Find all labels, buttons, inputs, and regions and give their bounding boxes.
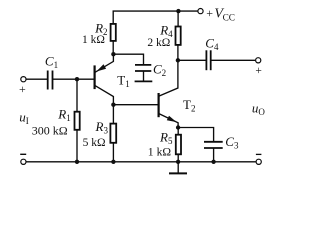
resistor R2 xyxy=(111,24,116,41)
wire C4 to output xyxy=(211,59,256,61)
ground xyxy=(177,162,179,173)
wire node to C2 xyxy=(113,54,143,64)
wire R2 bottom to node xyxy=(112,41,114,54)
svg-text:300 kΩ: 300 kΩ xyxy=(32,124,68,138)
svg-text:1 kΩ: 1 kΩ xyxy=(82,34,105,46)
node R5 bottom xyxy=(176,160,180,164)
wire input to T1 base xyxy=(26,78,47,80)
node T2 collector / R4 / C4 xyxy=(176,58,180,62)
svg-text:CC: CC xyxy=(223,13,235,23)
wire emitter to C3 xyxy=(178,128,213,142)
node C3 bottom xyxy=(211,160,215,164)
resistor R3 xyxy=(112,105,114,124)
terminal input + xyxy=(21,77,26,82)
capacitor C3 xyxy=(204,141,223,143)
svg-text:5 kΩ: 5 kΩ xyxy=(83,137,106,149)
node T1 collector xyxy=(111,103,115,107)
svg-text:2 kΩ: 2 kΩ xyxy=(147,37,170,49)
transistor T1 xyxy=(93,65,95,89)
terminal output - xyxy=(256,159,261,164)
capacitor C1 xyxy=(47,71,49,90)
terminal output + xyxy=(256,58,261,63)
svg-text:+: + xyxy=(255,65,262,77)
terminal +Vcc xyxy=(198,9,203,14)
node R1 bottom xyxy=(75,160,79,164)
wire T1 collector to T2 base xyxy=(113,104,158,106)
wire node to C4 xyxy=(178,59,207,61)
node R3 bottom xyxy=(111,160,115,164)
terminal input - xyxy=(21,159,26,164)
svg-text:+: + xyxy=(206,6,213,20)
resistor R4 xyxy=(177,11,179,26)
svg-text:+: + xyxy=(19,82,26,96)
label +Vcc xyxy=(206,6,235,24)
node T2 emitter xyxy=(176,125,180,129)
minus sign output xyxy=(256,153,262,155)
resistor R1 xyxy=(76,79,78,112)
node T1 emitter xyxy=(111,52,115,56)
node C1 R1 junction xyxy=(75,77,79,81)
svg-text:1 kΩ: 1 kΩ xyxy=(148,146,172,159)
node top rail R4 junction xyxy=(176,9,180,13)
bottom rail xyxy=(26,161,256,163)
capacitor C4 xyxy=(205,50,207,70)
wire top rail xyxy=(113,11,198,24)
capacitor C2 xyxy=(135,64,151,66)
minus sign input xyxy=(20,153,26,155)
resistor R5 xyxy=(177,128,179,135)
transistor T2 xyxy=(158,93,160,117)
